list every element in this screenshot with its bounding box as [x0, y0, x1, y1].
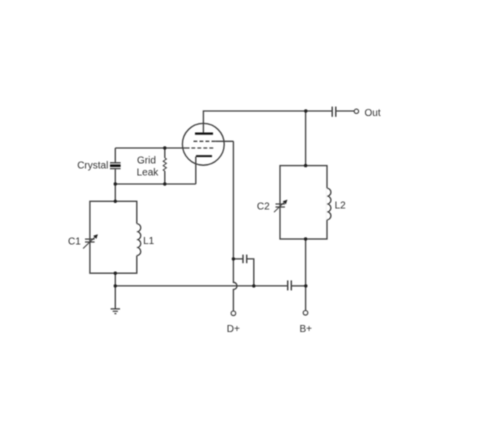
svg-text:L1: L1 [143, 236, 155, 247]
svg-text:C1: C1 [68, 237, 81, 248]
svg-text:C2: C2 [257, 202, 270, 213]
svg-text:B+: B+ [300, 324, 313, 335]
svg-text:Out: Out [365, 108, 381, 119]
svg-text:Crystal: Crystal [77, 161, 108, 172]
svg-text:Leak: Leak [137, 168, 160, 179]
svg-text:Grid: Grid [137, 156, 156, 167]
svg-text:D+: D+ [227, 324, 240, 335]
svg-text:L2: L2 [335, 201, 347, 212]
